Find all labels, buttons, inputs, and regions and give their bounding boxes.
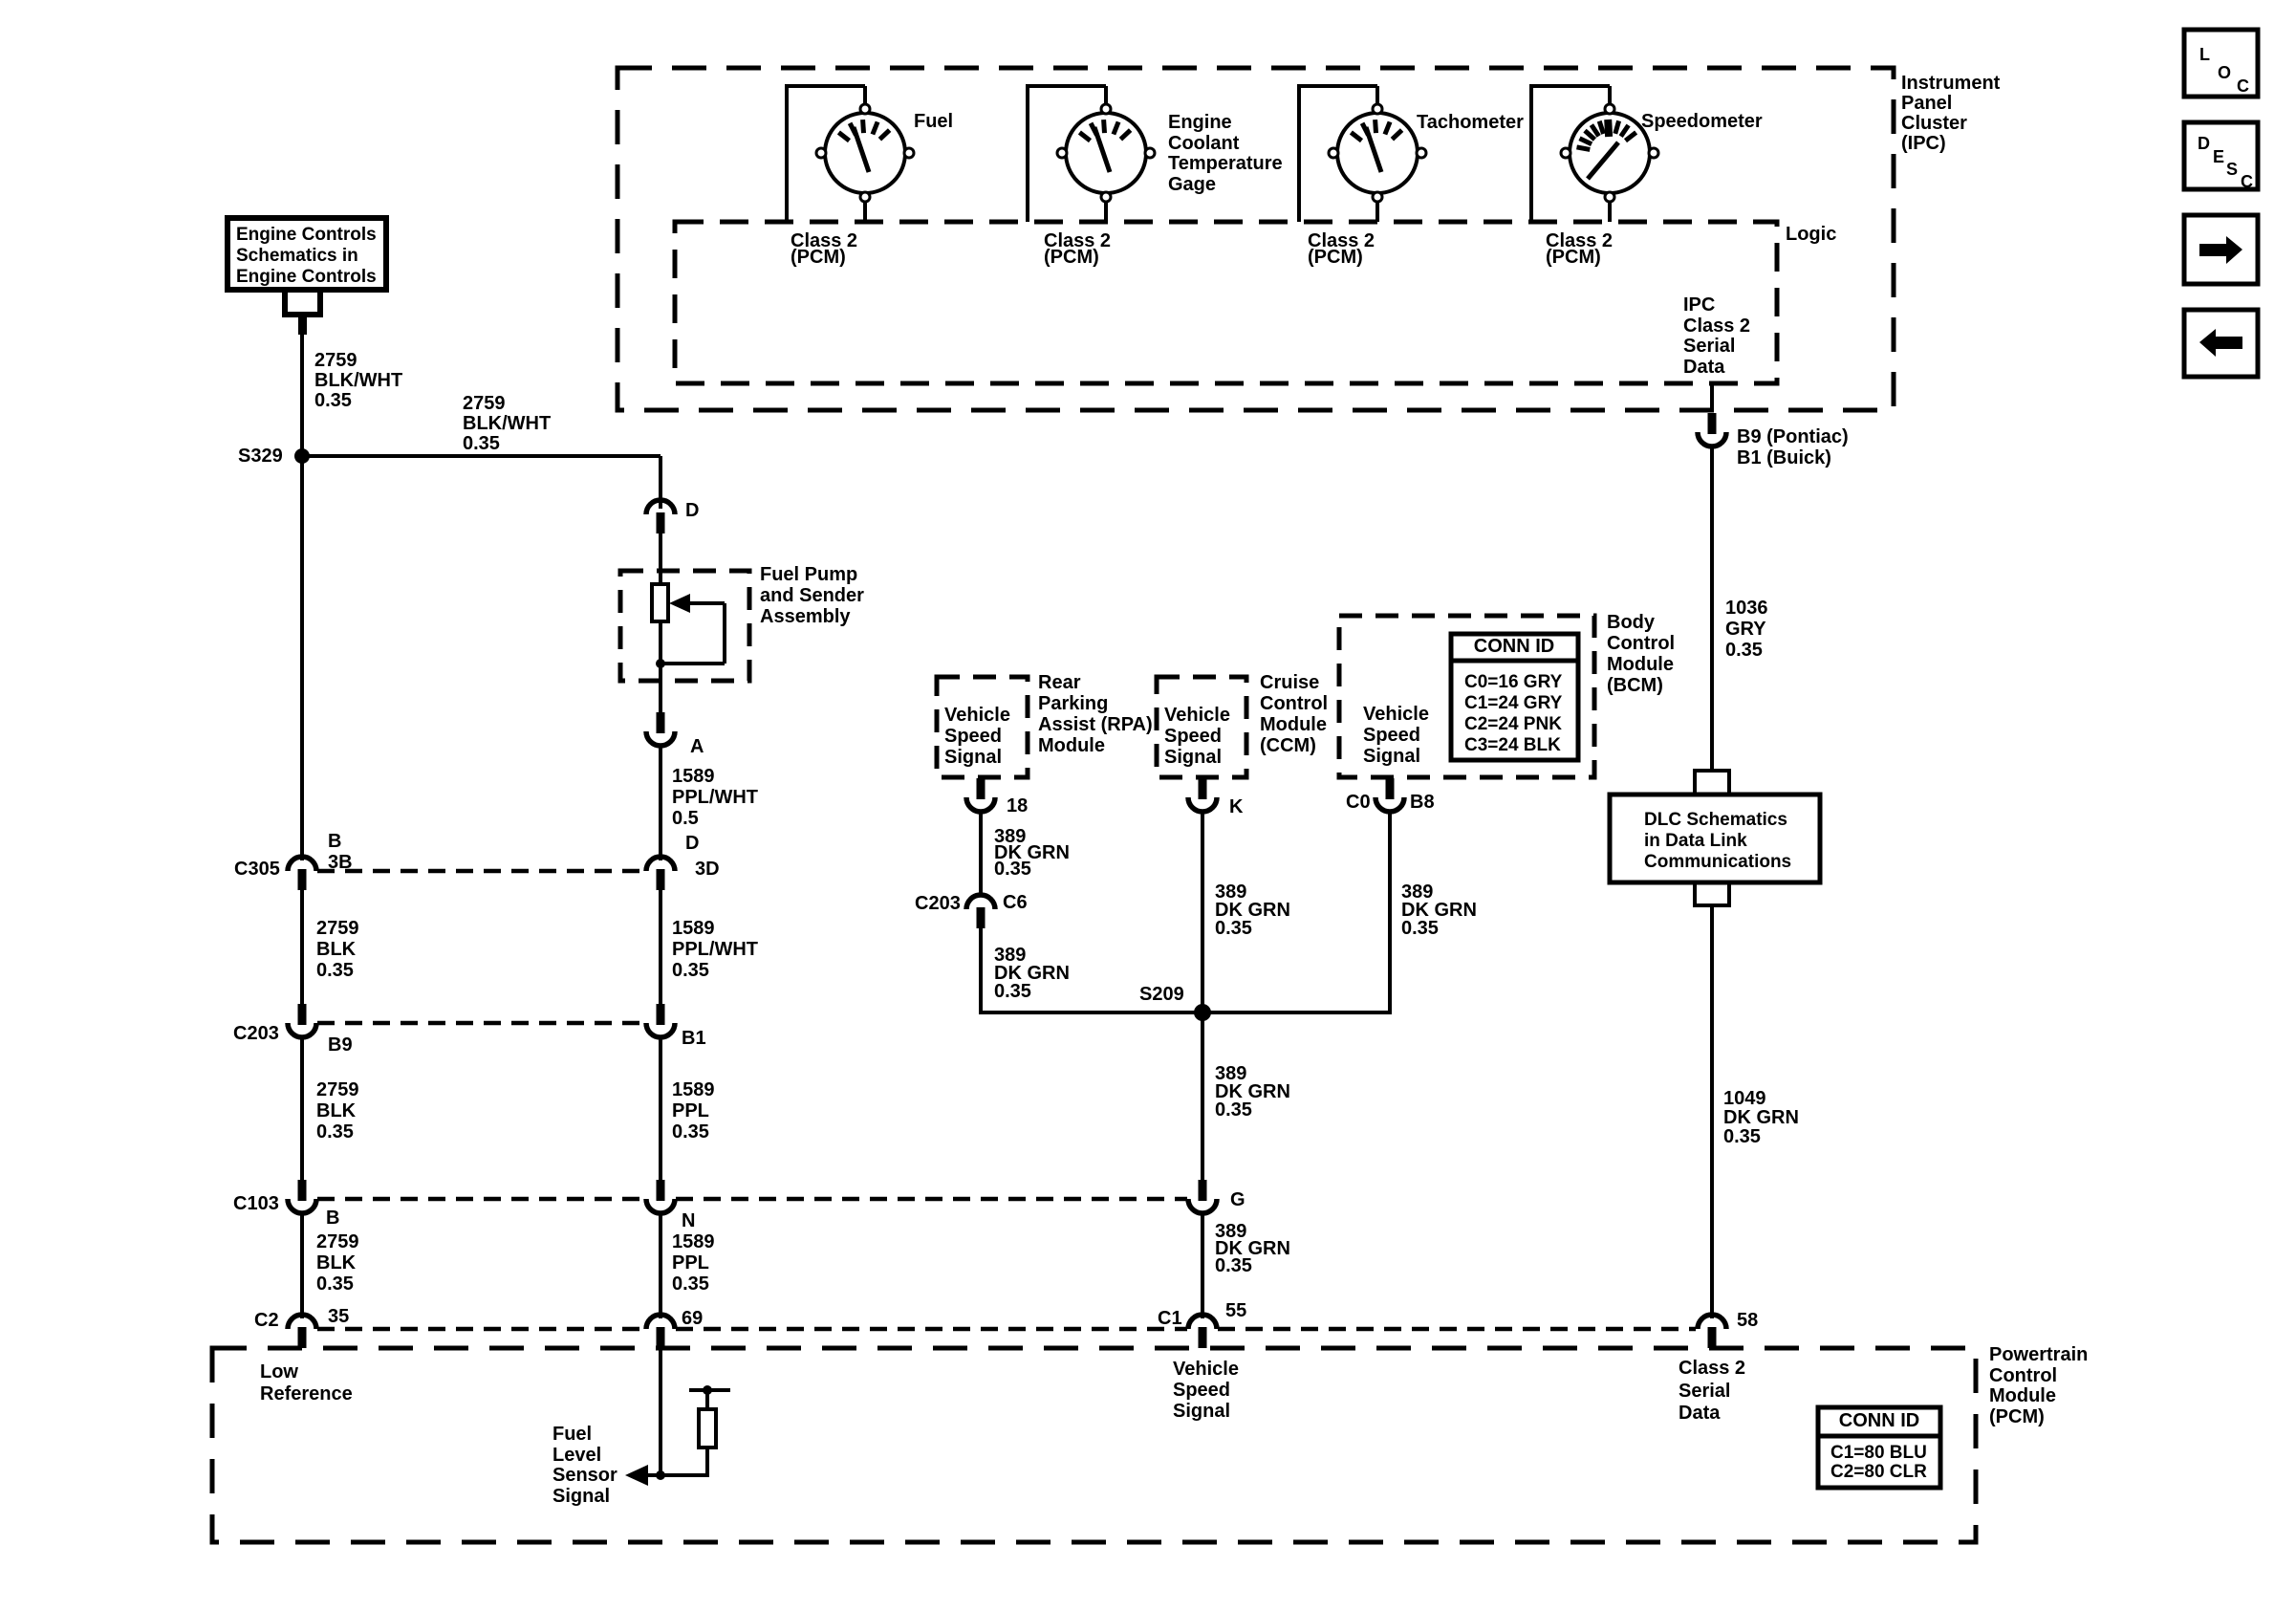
- resistor: PCM pull-up: [689, 1385, 730, 1477]
- wire: 389 DK GRN RPA to C203 C6: [979, 810, 983, 897]
- wire: Tachometer gauge loop to Logic box: [1299, 84, 1377, 222]
- splice S209: [1194, 1004, 1211, 1021]
- svg-text:Tachometer: Tachometer: [1417, 112, 1524, 133]
- svg-text:Engine ControlsSchematics inEn: Engine ControlsSchematics inEngine Contr…: [236, 225, 377, 287]
- svg-text:VehicleSpeedSignal: VehicleSpeedSignal: [1363, 704, 1429, 767]
- gauge Engine Coolant Temperature gauge: [1057, 104, 1155, 202]
- connector D (fuel pump assembly): [646, 500, 675, 533]
- svg-text:K: K: [1229, 796, 1244, 817]
- gauge Speedometer gauge: [1561, 104, 1658, 202]
- wire: fuel level sensor signal arrow: [625, 1465, 707, 1486]
- svg-text:S329: S329: [238, 446, 283, 467]
- connector C103 pin G: [1188, 1180, 1217, 1213]
- svg-text:N: N: [682, 1210, 695, 1231]
- connector A (fuel pump assembly): [646, 712, 675, 746]
- svg-text:18: 18: [1007, 795, 1028, 816]
- svg-text:S209: S209: [1139, 984, 1184, 1005]
- svg-text:C1: C1: [1158, 1308, 1182, 1329]
- svg-text:C: C: [2241, 172, 2253, 191]
- svg-text:1589PPL0.35: 1589PPL0.35: [672, 1231, 715, 1295]
- svg-text:55: 55: [1225, 1300, 1246, 1321]
- svg-text:C0: C0: [1346, 792, 1371, 813]
- nav box: arrow right: [2184, 215, 2258, 284]
- connector stub above DLC box: [1693, 771, 1731, 795]
- connector C203 pin C6: [966, 895, 995, 928]
- connector pin B8 (BCM C0): [1375, 778, 1404, 812]
- wire: N to 69 right: [659, 1211, 662, 1318]
- svg-text:Fuel Pumpand SenderAssembly: Fuel Pumpand SenderAssembly: [760, 564, 864, 627]
- table: BCM CONN ID: [1451, 634, 1578, 760]
- svg-text:35: 35: [328, 1306, 349, 1327]
- reference box: DLC Schematics in Data Link Communications: [1610, 795, 1820, 882]
- svg-text:C305: C305: [234, 859, 280, 880]
- gauge Fuel gauge: [816, 104, 914, 202]
- svg-text:D: D: [685, 500, 699, 521]
- wire: sender wiper loop with arrow: [661, 594, 725, 664]
- connector C2 pin 69: [646, 1315, 675, 1348]
- nav box: DESC: [2184, 122, 2258, 189]
- wire: C305 to C203 left: [300, 888, 304, 1004]
- connector C1 pin 55: [1188, 1315, 1217, 1348]
- connector pin 18 (RPA): [966, 778, 995, 812]
- module box: Vehicle Speed Signal (CCM) dashed: [1157, 677, 1246, 777]
- splice S329: [294, 448, 310, 464]
- svg-text:2759BLK0.35: 2759BLK0.35: [316, 1079, 359, 1143]
- svg-text:Fuel: Fuel: [914, 111, 953, 132]
- svg-text:D: D: [2198, 134, 2210, 153]
- svg-text:CONN ID: CONN ID: [1839, 1410, 1919, 1431]
- connector C103 pin B: [288, 1180, 316, 1213]
- svg-text:1589PPL0.35: 1589PPL0.35: [672, 1079, 715, 1143]
- svg-text:VehicleSpeedSignal: VehicleSpeedSignal: [1164, 705, 1230, 768]
- module box: Vehicle Speed Signal (RPA) dashed: [937, 677, 1028, 777]
- svg-text:G: G: [1230, 1189, 1245, 1210]
- module box: Instrument Panel Cluster (IPC) dashed enclosure: [617, 68, 1894, 410]
- wire: 1049 DK GRN DLC to PCM 58: [1710, 905, 1714, 1318]
- svg-text:B: B: [326, 1208, 339, 1229]
- wire: S209 down to G: [1201, 1012, 1204, 1182]
- connector row PCM dashed line (C2/C1): [317, 1327, 645, 1332]
- gauge Tachometer gauge: [1329, 104, 1426, 202]
- connector row C305 dashed line: [317, 869, 645, 874]
- wire: C305 to C203 right: [659, 888, 662, 1004]
- nav box: LOC: [2184, 30, 2258, 97]
- wire: 389 DK GRN CCM to S209: [1201, 811, 1204, 1012]
- svg-text:Speedometer: Speedometer: [1641, 111, 1763, 132]
- resistor: fuel level sender element: [652, 584, 668, 621]
- svg-text:C103: C103: [233, 1193, 279, 1214]
- svg-text:A: A: [690, 736, 704, 757]
- wire: 389 DK GRN BCM to S209: [1388, 811, 1392, 1012]
- svg-text:2759BLK0.35: 2759BLK0.35: [316, 1231, 359, 1295]
- wire: resistor to pin A: [659, 621, 662, 712]
- connector stub below Engine Controls box: [282, 290, 323, 335]
- table: PCM CONN ID: [1818, 1407, 1940, 1488]
- svg-text:VehicleSpeedSignal: VehicleSpeedSignal: [1173, 1359, 1239, 1422]
- connector C203 pin B1: [646, 1004, 675, 1037]
- junction: fuel level sensor signal node: [656, 1470, 665, 1480]
- svg-text:1036GRY0.35: 1036GRY0.35: [1725, 598, 1768, 661]
- connector C203 pin B9: [288, 1004, 316, 1037]
- wire: into fuel pump resistor: [659, 533, 662, 586]
- wire: Engine Coolant Temperature gauge loop to Logic box: [1028, 84, 1106, 222]
- svg-text:B1: B1: [682, 1028, 706, 1049]
- wire: 69 into PCM fuel level sensor node: [659, 1348, 662, 1475]
- svg-text:B8: B8: [1410, 792, 1435, 813]
- svg-text:C1=80 BLUC2=80 CLR: C1=80 BLUC2=80 CLR: [1830, 1443, 1927, 1482]
- svg-text:C: C: [2237, 76, 2249, 96]
- nav box: arrow left: [2184, 310, 2258, 377]
- svg-text:C2: C2: [254, 1310, 279, 1331]
- wire: C203 to C103 right: [659, 1035, 662, 1182]
- connector pin 58 (PCM): [1698, 1315, 1726, 1348]
- wire: C203 to C103 left: [300, 1035, 304, 1182]
- wire: S209 horizontal bus: [979, 1011, 1392, 1014]
- wire: C6 down to S209: [979, 927, 983, 1014]
- connector C305 pin B/3B: [288, 857, 316, 890]
- svg-text:O: O: [2218, 63, 2231, 82]
- svg-text:Logic: Logic: [1786, 224, 1836, 245]
- wire: S329 branch right to fuel pump sender: [302, 456, 661, 509]
- svg-text:69: 69: [682, 1308, 703, 1329]
- svg-text:D: D: [685, 833, 699, 854]
- wire: 2759 BLK/WHT from Engine Controls to S329: [300, 333, 304, 456]
- connector stub below DLC box: [1693, 882, 1731, 905]
- svg-text:E: E: [2213, 147, 2224, 166]
- connector C103 pin N: [646, 1180, 675, 1213]
- wire: pin A down to C305: [659, 745, 662, 860]
- svg-text:2759BLK0.35: 2759BLK0.35: [316, 918, 359, 981]
- connector pin K (CCM): [1188, 778, 1217, 812]
- module box: IPC Logic dashed enclosure: [675, 222, 1777, 383]
- module box: Powertrain Control Module dashed enclosure: [212, 1348, 1976, 1542]
- svg-text:58: 58: [1737, 1310, 1758, 1331]
- reference box: Engine Controls Schematics in Engine Controls: [227, 218, 386, 290]
- svg-text:C6: C6: [1003, 892, 1028, 913]
- wire: Speedometer gauge loop to Logic box: [1531, 84, 1610, 222]
- wire: S329 down to C305: [300, 456, 304, 860]
- connector C2 pin 35: [288, 1315, 316, 1348]
- svg-text:3D: 3D: [695, 859, 720, 880]
- svg-text:C0=16 GRYC1=24 GRYC2=24 PNKC3=: C0=16 GRYC1=24 GRYC2=24 PNKC3=24 BLK: [1464, 672, 1563, 755]
- svg-text:B9: B9: [328, 1034, 353, 1056]
- connector pin B9/B1 (IPC): [1698, 413, 1726, 446]
- wire: C103 to C2 left: [300, 1211, 304, 1318]
- svg-text:C203: C203: [233, 1023, 279, 1044]
- svg-text:C203: C203: [915, 893, 961, 914]
- module box: Body Control Module dashed: [1339, 616, 1594, 777]
- connector row C203 dashed line: [317, 1021, 645, 1026]
- wire: G down to C1: [1201, 1211, 1204, 1318]
- wire: 1036 GRY IPC to DLC: [1710, 445, 1714, 773]
- svg-text:VehicleSpeedSignal: VehicleSpeedSignal: [944, 705, 1010, 768]
- connector C305 pin D/3D: [646, 857, 675, 890]
- svg-text:S: S: [2226, 160, 2238, 179]
- wire: Fuel gauge loop to Logic box: [787, 84, 865, 222]
- connector row C103 dashed line: [317, 1197, 645, 1202]
- component box: Fuel Pump and Sender Assembly dashed: [620, 571, 749, 681]
- junction: sender bottom node: [656, 659, 665, 668]
- svg-text:L: L: [2199, 45, 2210, 64]
- svg-text:CONN ID: CONN ID: [1474, 636, 1554, 657]
- wire: IPC logic output: [1710, 383, 1714, 412]
